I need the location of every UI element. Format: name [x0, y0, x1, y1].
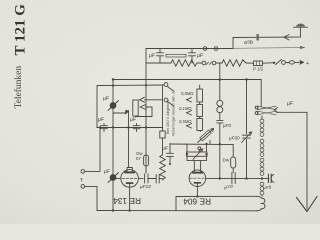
svg-text:T 121 G: T 121 G [13, 4, 29, 56]
svg-text:0,5MΩ: 0,5MΩ [179, 119, 192, 124]
svg-text:RE 604: RE 604 [183, 197, 211, 207]
svg-text:µF: µF [104, 169, 111, 175]
svg-text:µF22: µF22 [140, 184, 151, 190]
svg-text:0,8MΩ: 0,8MΩ [181, 91, 194, 96]
svg-text:0,1MΩ: 0,1MΩ [179, 106, 192, 111]
svg-text:57: 57 [136, 156, 141, 161]
svg-text:+: + [306, 61, 309, 67]
svg-text:µF00: µF00 [229, 136, 240, 141]
svg-text:Telefunken: Telefunken [13, 66, 24, 109]
svg-text:µF0: µF0 [223, 123, 231, 128]
svg-text:RE 134: RE 134 [113, 196, 141, 206]
svg-text:µF: µF [103, 96, 110, 102]
svg-text:µFll: µFll [263, 185, 272, 191]
svg-text:Bei 150 V Abgleich: Bei 150 V Abgleich [165, 100, 170, 134]
svg-text:µF: µF [197, 53, 204, 59]
svg-text:Dw: Dw [223, 158, 230, 163]
svg-text:µF: µF [287, 101, 294, 107]
svg-text:Verzerrungen messen wdh. 2x: Verzerrungen messen wdh. 2x [172, 90, 176, 136]
svg-text:P 1/2: P 1/2 [253, 67, 264, 72]
svg-text:a²/b: a²/b [244, 40, 253, 46]
svg-text:µF: µF [162, 146, 169, 152]
svg-text:µF: µF [130, 117, 137, 123]
svg-text:µF: µF [98, 117, 105, 123]
svg-text:µF: µF [149, 53, 156, 59]
